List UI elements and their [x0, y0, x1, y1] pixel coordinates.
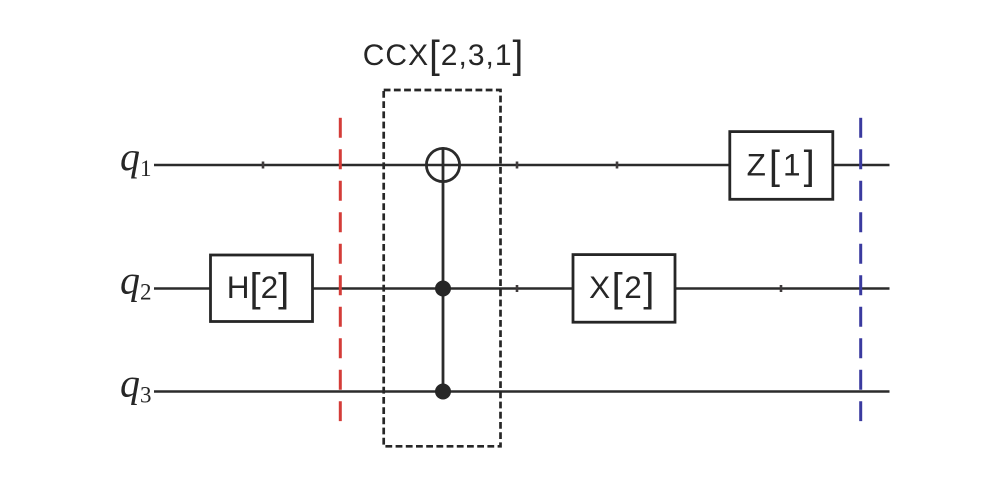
wire join tick q2 b	[780, 285, 783, 292]
wire q1	[154, 164, 890, 167]
svg-text:H[2]: H[2]	[227, 266, 290, 310]
svg-text:CCX[2,3,1]: CCX[2,3,1]	[363, 34, 524, 77]
wire q2	[154, 287, 890, 290]
control dot q3	[435, 384, 451, 400]
wire join tick q2 a	[516, 285, 519, 292]
gate Z[1] box	[730, 132, 833, 200]
gate X[2] box	[573, 255, 675, 323]
barrier blue dashed	[859, 118, 862, 421]
wire join tick q1 a	[262, 162, 265, 169]
wire join tick q1 c	[616, 162, 619, 169]
svg-text:X[2]: X[2]	[589, 266, 656, 310]
svg-text:Z[1]: Z[1]	[747, 143, 818, 187]
wire join tick q1 b	[516, 162, 519, 169]
barrier red dashed	[339, 118, 342, 421]
wire q3	[154, 390, 890, 393]
CCX group dotted box	[384, 90, 501, 446]
control dot q2	[435, 281, 451, 297]
CNOT vertical line	[442, 147, 445, 392]
CNOT target circle on q1	[426, 148, 459, 181]
gate H[2] box	[211, 255, 313, 322]
